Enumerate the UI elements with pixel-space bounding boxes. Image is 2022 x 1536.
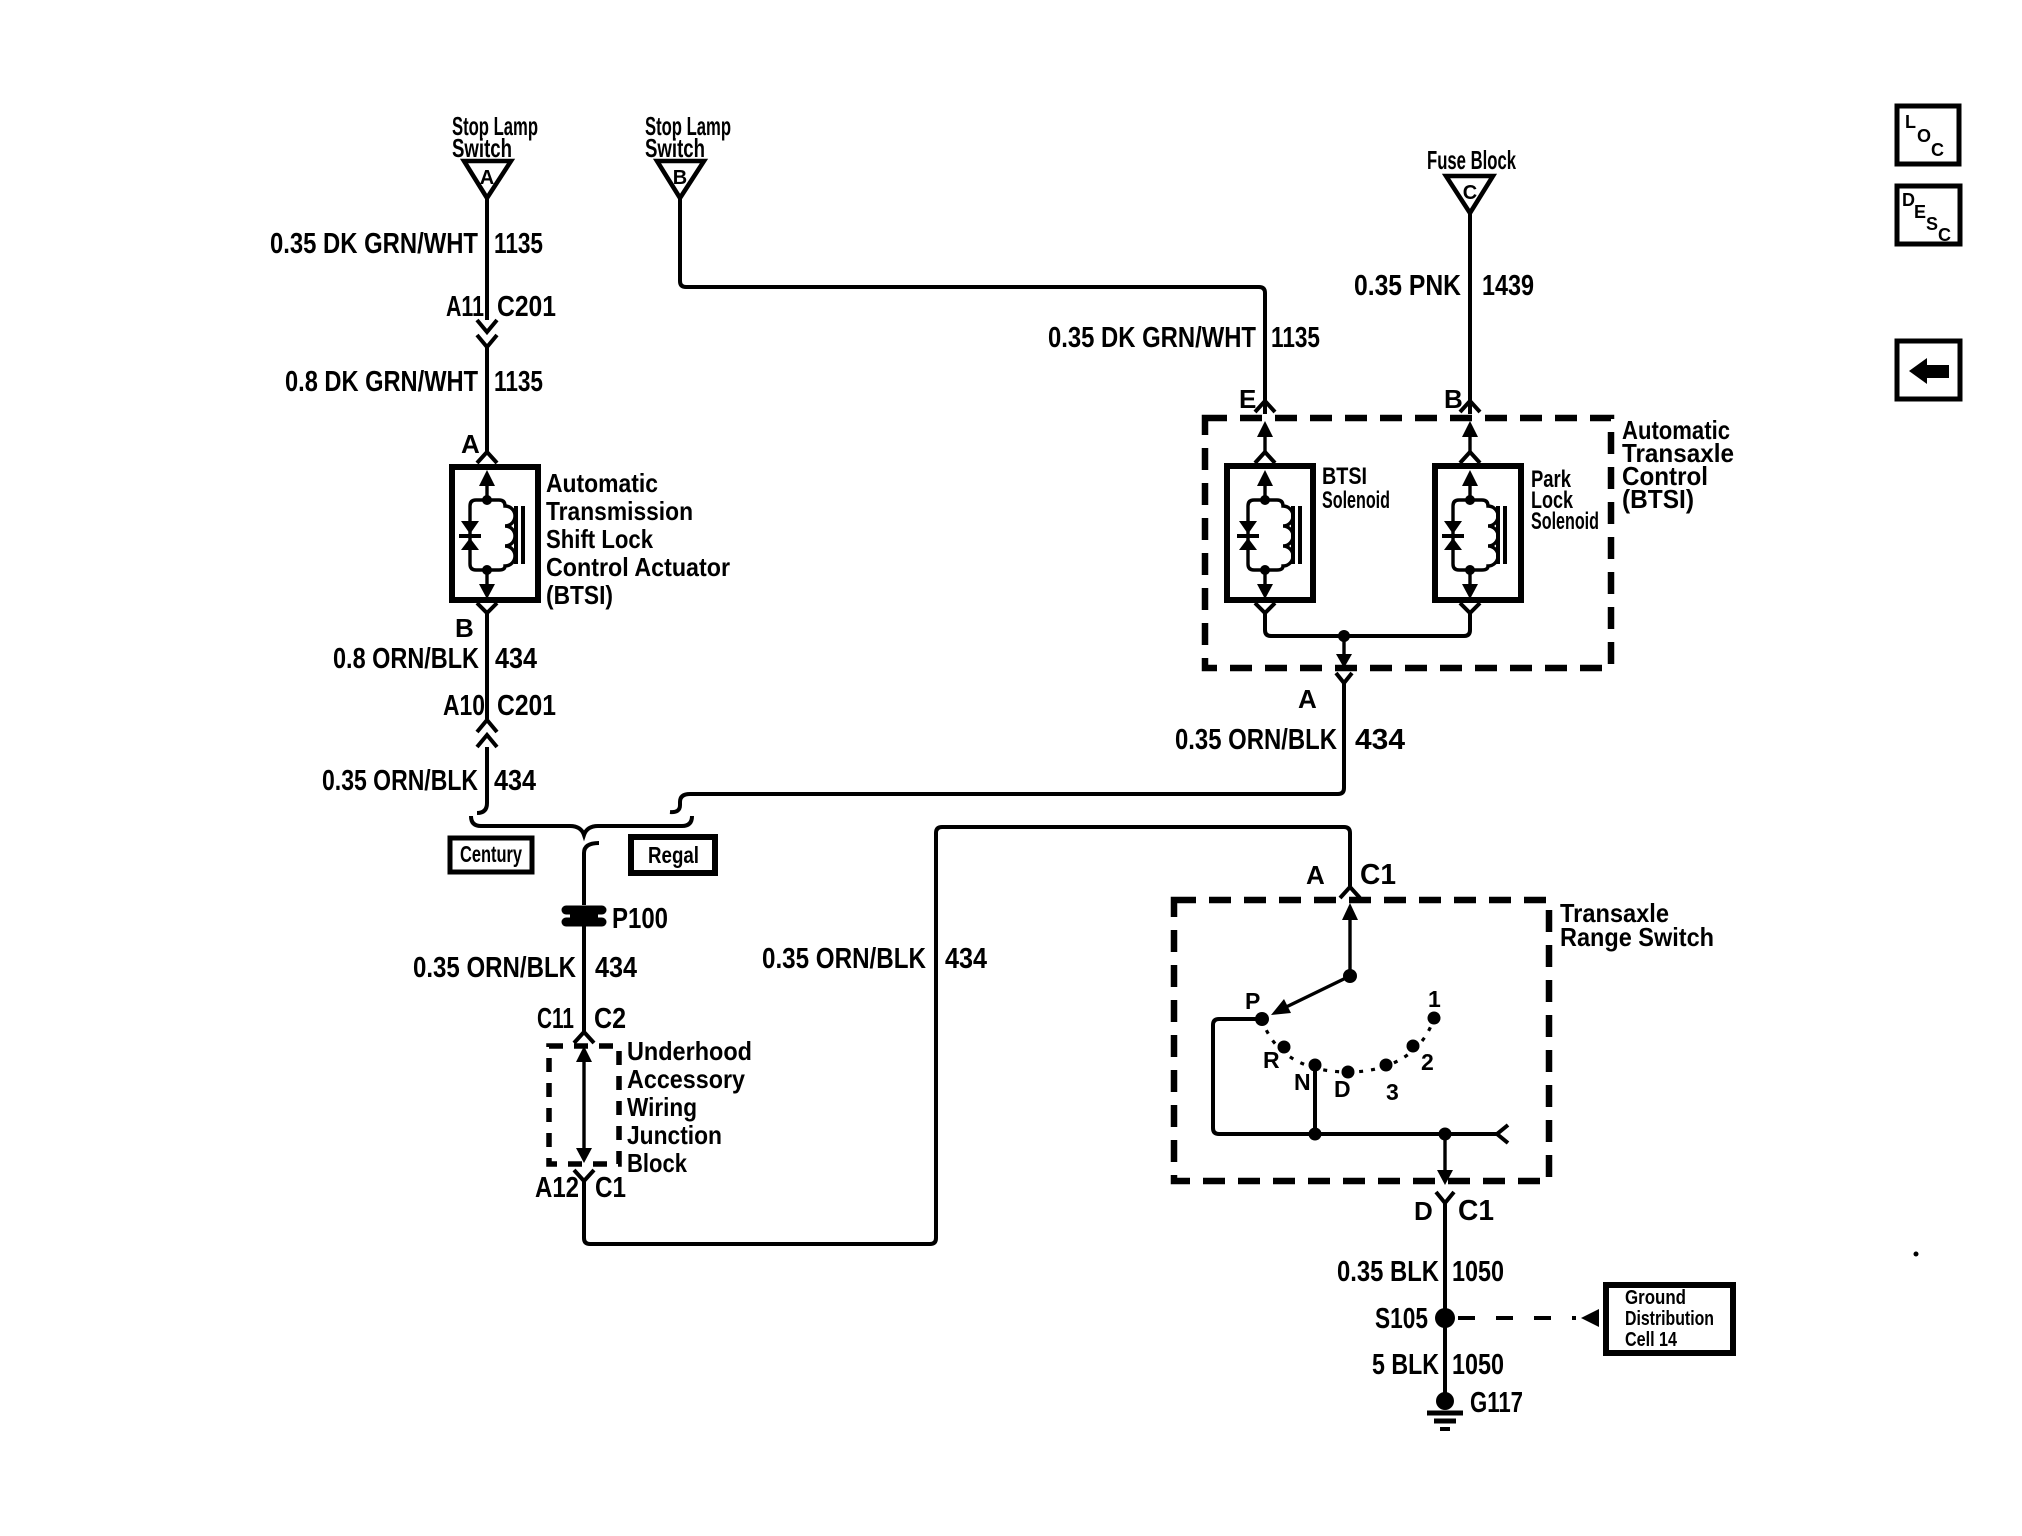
legend box DESC <box>1897 186 1960 244</box>
svg-text:A: A <box>480 167 494 189</box>
svg-text:0.35 DK GRN/WHT: 0.35 DK GRN/WHT <box>270 228 478 260</box>
svg-text:434: 434 <box>494 765 536 797</box>
park lock solenoid internal: top junction dot <box>1465 495 1475 505</box>
component label: Stop Lamp Switch (left) <box>452 111 538 163</box>
component label: Automatic Transaxle Control (BTSI) <box>1622 415 1734 514</box>
wire label: 0.35 PNK 1439 <box>1354 270 1534 302</box>
svg-text:S: S <box>1926 214 1938 234</box>
pin A/C1 connector chevron <box>1340 887 1360 898</box>
svg-text:C1: C1 <box>595 1172 626 1204</box>
wire: 0.35 ORN/BLK 434 from P100 to junction block C2 <box>582 926 586 1033</box>
svg-text:0.35 DK GRN/WHT: 0.35 DK GRN/WHT <box>1048 322 1256 354</box>
svg-text:2: 2 <box>1421 1049 1434 1075</box>
off-page connector triangle B (Stop Lamp Switch) <box>657 161 704 198</box>
svg-text:Transmission: Transmission <box>546 496 693 526</box>
svg-text:L: L <box>1905 112 1916 132</box>
wire: 0.35 ORN/BLK 434 down to splice options <box>477 747 487 813</box>
wire label: 0.35 ORN/BLK 434 (pin A) <box>1175 724 1405 756</box>
legend letters LOC <box>1905 112 1944 160</box>
svg-text:Solenoid: Solenoid <box>1322 487 1390 514</box>
wire: 0.35 BLK 1050 from D/C1 to splice S105 <box>1443 1211 1447 1318</box>
pin A connector fork below transaxle control <box>1336 673 1352 692</box>
pin A internal arrow down <box>1336 636 1352 668</box>
svg-text:Switch: Switch <box>452 133 512 163</box>
BTSI solenoid internal: coil branch <box>1265 500 1293 570</box>
contact dot 3 <box>1380 1059 1393 1072</box>
pin D/C1 connector fork below range switch <box>1436 1192 1454 1211</box>
legend box back-arrow <box>1897 341 1960 399</box>
wire label: 0.35 DK GRN/WHT 1135 (pin E feed) <box>1048 322 1320 354</box>
wire: 0.35 ORN/BLK 434 from A12/C1 across to transaxle range switch pin A <box>584 827 1350 1244</box>
svg-text:P100: P100 <box>612 903 668 935</box>
svg-text:Solenoid: Solenoid <box>1531 508 1599 535</box>
actuator internal: diode branch (left) <box>470 500 487 570</box>
svg-text:1050: 1050 <box>1452 1256 1504 1288</box>
svg-text:E: E <box>1239 384 1256 414</box>
component box: BTSI Solenoid <box>1227 466 1313 600</box>
svg-text:Block: Block <box>627 1148 687 1178</box>
park lock solenoid internal: exit arrow down <box>1462 570 1478 599</box>
connector A12/C1 fork below junction block <box>574 1170 594 1190</box>
park lock solenoid internal: suppression diode <box>1442 521 1464 550</box>
svg-text:0.35 ORN/BLK: 0.35 ORN/BLK <box>322 765 478 797</box>
wire: PNK 1439 from fuse block to transaxle control pin B <box>1468 213 1472 414</box>
svg-text:A: A <box>1306 860 1325 890</box>
component label: Park Lock Solenoid <box>1531 466 1599 535</box>
contact dot N <box>1309 1059 1322 1072</box>
BTSI solenoid internal: suppression diode <box>1237 521 1259 550</box>
pin E internal arrow up <box>1257 421 1273 452</box>
BTSI solenoid internal: entry arrow up <box>1257 470 1273 500</box>
park lock solenoid internal: entry arrow up <box>1462 470 1478 500</box>
svg-text:C1: C1 <box>1360 859 1396 891</box>
wire: DK GRN/WHT 1135 from triangle B to transaxle control pin E <box>680 198 1265 414</box>
option box: Century <box>450 838 532 872</box>
svg-text:Wiring: Wiring <box>627 1092 697 1122</box>
park lock solenoid internal: coil core lines <box>1498 506 1505 564</box>
contact dot 2 <box>1407 1040 1420 1053</box>
svg-text:434: 434 <box>1355 724 1405 756</box>
svg-text:C2: C2 <box>594 1003 626 1035</box>
component label: Automatic Transmission Shift Lock Control Actuator (BTSI) <box>546 468 730 610</box>
wire label: 0.35 ORN/BLK 434 (Century branch) <box>413 952 637 984</box>
actuator internal: suppression diode triangles and bar <box>459 521 481 550</box>
svg-text:Cell 14: Cell 14 <box>1625 1329 1678 1351</box>
park lock solenoid internal: bottom junction dot <box>1465 565 1475 575</box>
junction dot at N stub on rail <box>1309 1128 1322 1141</box>
reference label: Ground Distribution Cell 14 <box>1625 1287 1714 1351</box>
dashed contact arc <box>1262 1018 1434 1072</box>
svg-text:0.35 ORN/BLK: 0.35 ORN/BLK <box>762 943 926 975</box>
junction dot on common bus <box>1338 630 1350 642</box>
pin B connector chevron <box>1460 401 1480 412</box>
BTSI solenoid internal: exit arrow down <box>1257 570 1273 599</box>
dashed reference line from S105 to ground distribution cell <box>1458 1316 1576 1320</box>
range switch internal: wiper arm arrow to P <box>1271 976 1350 1015</box>
BTSI solenoid internal: coil core lines <box>1293 506 1300 564</box>
svg-text:Accessory: Accessory <box>627 1064 745 1094</box>
in-line connector C201 symbol (double chevron up) <box>477 720 497 747</box>
junction dot at D output on rail <box>1439 1128 1452 1141</box>
wire label: 0.8 DK GRN/WHT 1135 <box>285 366 543 398</box>
actuator internal: bottom junction dot <box>482 565 492 575</box>
wire: P contact to common rail <box>1213 1019 1497 1134</box>
component dashed box: Automatic Transaxle Control (BTSI) <box>1205 418 1611 668</box>
legend letters DESC <box>1902 190 1951 245</box>
svg-text:434: 434 <box>595 952 637 984</box>
option-merge brace (Century / Regal) <box>471 816 692 835</box>
BTSI solenoid exit fork <box>1255 603 1275 618</box>
svg-text:B: B <box>673 167 687 189</box>
svg-text:S105: S105 <box>1375 1303 1428 1335</box>
svg-text:D: D <box>1334 1076 1351 1102</box>
svg-text:Junction: Junction <box>627 1120 722 1150</box>
legend box LOC <box>1897 106 1959 164</box>
svg-text:B: B <box>455 613 474 643</box>
svg-text:Underhood: Underhood <box>627 1036 752 1066</box>
svg-text:O: O <box>1917 126 1931 146</box>
svg-text:1050: 1050 <box>1452 1349 1504 1381</box>
svg-text:0.8 DK GRN/WHT: 0.8 DK GRN/WHT <box>285 366 478 398</box>
component box: Park Lock Solenoid <box>1435 466 1521 600</box>
component dashed box: Underhood Accessory Wiring Junction Block <box>549 1046 619 1164</box>
component box: Automatic Transmission Shift Lock Control Actuator (BTSI) U-left <box>452 467 538 600</box>
svg-text:434: 434 <box>495 643 537 675</box>
svg-text:0.8 ORN/BLK: 0.8 ORN/BLK <box>333 643 479 675</box>
wire: 0.8 DK GRN/WHT 1135 from C201 to actuator pin A <box>485 347 489 452</box>
wire: DK GRN/WHT 1135 from triangle A down to connector C201 <box>485 198 489 320</box>
BTSI solenoid internal: top junction dot <box>1260 495 1270 505</box>
BTSI solenoid internal: diode branch <box>1248 500 1265 570</box>
svg-text:D: D <box>1414 1196 1433 1226</box>
component label: Transaxle Range Switch <box>1560 898 1714 952</box>
svg-text:Fuse Block: Fuse Block <box>1427 145 1516 175</box>
svg-text:Century: Century <box>460 841 522 867</box>
wire label: 5 BLK 1050 <box>1372 1349 1504 1381</box>
svg-text:A: A <box>1298 684 1317 714</box>
svg-text:0.35 ORN/BLK: 0.35 ORN/BLK <box>1175 724 1337 756</box>
svg-text:BTSI: BTSI <box>1322 463 1367 490</box>
svg-text:1439: 1439 <box>1482 270 1534 302</box>
svg-text:R: R <box>1263 1047 1280 1073</box>
svg-text:N: N <box>1294 1069 1311 1095</box>
BTSI solenoid entry chevron <box>1255 452 1275 463</box>
svg-text:3: 3 <box>1386 1079 1399 1105</box>
svg-text:A12: A12 <box>535 1172 579 1204</box>
component label: BTSI Solenoid <box>1322 463 1390 514</box>
svg-text:C11: C11 <box>537 1003 574 1035</box>
svg-text:(BTSI): (BTSI) <box>1622 484 1694 514</box>
wire: 5 BLK 1050 from S105 to ground G117 <box>1443 1318 1447 1400</box>
range switch internal: pin A arrow up <box>1342 903 1358 976</box>
actuator internal: top junction dot <box>482 495 492 505</box>
contact dot D <box>1342 1066 1355 1079</box>
pin E connector chevron <box>1255 401 1275 412</box>
ground symbol G117 <box>1427 1392 1463 1429</box>
svg-text:Ground: Ground <box>1625 1287 1686 1309</box>
contact dot 1 <box>1428 1012 1441 1025</box>
BTSI solenoid internal: bottom junction dot <box>1260 565 1270 575</box>
svg-text:E: E <box>1914 202 1926 222</box>
wire label: 0.8 ORN/BLK 434 <box>333 643 537 675</box>
pin B internal arrow up <box>1462 421 1478 452</box>
pin A connector chevron at actuator box <box>477 452 497 463</box>
wire label: 0.35 DK GRN/WHT 1135 <box>270 228 543 260</box>
option box: Regal <box>631 837 715 873</box>
back-arrow icon <box>1909 358 1949 384</box>
rail right end fork <box>1497 1125 1508 1143</box>
wire: N contact stub down to rail <box>1313 1065 1317 1134</box>
stray dot mark <box>1914 1252 1919 1257</box>
svg-text:0.35 ORN/BLK: 0.35 ORN/BLK <box>413 952 576 984</box>
component label: Stop Lamp Switch (middle) <box>645 111 731 163</box>
svg-text:1: 1 <box>1428 986 1441 1012</box>
svg-text:C: C <box>1938 225 1951 245</box>
svg-text:A10: A10 <box>443 690 485 722</box>
component label: Underhood Accessory Wiring Junction Block <box>627 1036 752 1178</box>
park lock solenoid internal: coil branch <box>1470 500 1498 570</box>
connector C11/C2 chevron <box>574 1032 594 1043</box>
actuator internal: exit arrow down <box>479 570 495 599</box>
svg-text:434: 434 <box>945 943 987 975</box>
wire: 0.35 ORN/BLK 434 from pin A down and across <box>670 692 1344 812</box>
svg-text:C201: C201 <box>497 291 556 323</box>
svg-text:P: P <box>1245 988 1260 1014</box>
svg-text:Regal: Regal <box>648 842 699 868</box>
svg-text:1135: 1135 <box>494 366 543 398</box>
junction block internal: entry arrow up <box>576 1046 592 1150</box>
off-page connector triangle A (Stop Lamp Switch) <box>464 161 511 198</box>
svg-text:Automatic: Automatic <box>546 468 658 498</box>
svg-text:C1: C1 <box>1458 1195 1494 1227</box>
svg-text:C: C <box>1931 140 1944 160</box>
splice S105 junction dot <box>1435 1308 1455 1328</box>
svg-text:Switch: Switch <box>645 133 705 163</box>
actuator internal: coil core lines <box>516 506 523 564</box>
svg-text:0.35 PNK: 0.35 PNK <box>1354 270 1461 302</box>
svg-text:Range Switch: Range Switch <box>1560 922 1714 952</box>
wire label: 0.35 ORN/BLK 434 (Regal branch) <box>762 943 987 975</box>
wire label: 0.35 ORN/BLK 434 <box>322 765 536 797</box>
svg-text:1135: 1135 <box>1271 322 1320 354</box>
grommet P100 symbol <box>566 910 602 922</box>
svg-text:0.35 BLK: 0.35 BLK <box>1337 1256 1439 1288</box>
component dashed box: Transaxle Range Switch <box>1174 900 1549 1181</box>
svg-text:C: C <box>1463 182 1477 204</box>
svg-text:Shift Lock: Shift Lock <box>546 524 653 554</box>
svg-text:5 BLK: 5 BLK <box>1372 1349 1439 1381</box>
contact dot R <box>1278 1041 1291 1054</box>
range switch internal: wiper pivot dot <box>1343 969 1357 983</box>
junction block internal: exit arrow down <box>576 1148 592 1163</box>
off-page connector triangle C (Fuse Block) <box>1446 176 1493 213</box>
park lock solenoid entry chevron <box>1460 452 1480 463</box>
wire label: 0.35 BLK 1050 <box>1337 1256 1504 1288</box>
reference arrowhead (points left) <box>1581 1309 1599 1327</box>
in-line connector C201 symbol (double chevron) <box>477 320 497 347</box>
park lock solenoid exit fork <box>1460 603 1480 618</box>
svg-text:A11: A11 <box>446 291 484 323</box>
svg-text:(BTSI): (BTSI) <box>546 580 613 610</box>
wire: solenoid common bus inside transaxle control <box>1265 618 1470 636</box>
svg-text:Control Actuator: Control Actuator <box>546 552 730 582</box>
svg-text:G117: G117 <box>1470 1387 1523 1419</box>
svg-text:Distribution: Distribution <box>1625 1308 1714 1330</box>
range switch internal: pin D arrow down <box>1437 1134 1453 1185</box>
actuator internal: entry arrow up <box>479 470 495 500</box>
park lock solenoid internal: diode branch <box>1453 500 1470 570</box>
pin B connector fork below actuator <box>477 603 497 621</box>
reference box: Ground Distribution Cell 14 <box>1606 1285 1733 1353</box>
actuator internal: solenoid coil branch (right) <box>487 500 515 570</box>
svg-text:C201: C201 <box>497 690 556 722</box>
svg-text:1135: 1135 <box>494 228 543 260</box>
svg-text:A: A <box>461 429 480 459</box>
wire: 0.8 ORN/BLK 434 from actuator pin B to connector C201 <box>485 621 489 719</box>
contact dot P <box>1255 1012 1269 1026</box>
wire: ORN/BLK 434 below brace to P100 <box>584 843 599 905</box>
